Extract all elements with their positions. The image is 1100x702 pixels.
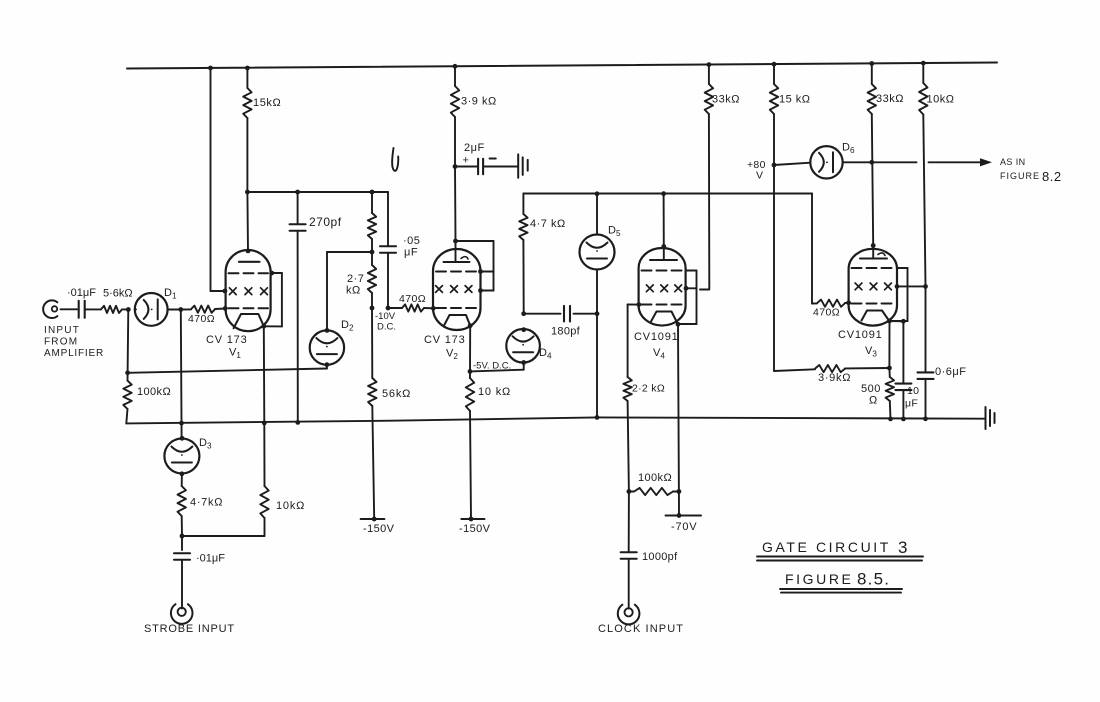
tube V2 CV173 envelope <box>433 249 481 330</box>
resistor 470 V3 grid <box>812 194 849 319</box>
capacitor 10uF <box>895 321 919 419</box>
ground at bus right <box>986 407 995 429</box>
wire V2 anode <box>454 167 457 242</box>
node 500 top junction <box>887 366 892 371</box>
node V3 screen pin <box>895 284 900 289</box>
wire V4 anode into plate <box>663 247 665 260</box>
node V3 grid pin <box>846 300 851 305</box>
svg-text:CV 173: CV 173 <box>206 334 248 346</box>
wire top HT supply rail <box>127 63 997 69</box>
node -10V DC junction <box>370 306 375 311</box>
capacitor 270pf <box>290 192 342 423</box>
wire V3 cathode drop <box>888 321 890 368</box>
node D4 top pin <box>521 327 526 332</box>
svg-text:V: V <box>756 170 763 182</box>
svg-text:100kΩ: 100kΩ <box>638 472 672 484</box>
resistor 10k strobe side <box>182 326 305 536</box>
label FIGURE 8.5 title <box>780 570 902 593</box>
svg-text:33kΩ: 33kΩ <box>876 93 904 105</box>
svg-text:CV 173: CV 173 <box>424 334 466 346</box>
svg-text:5·6kΩ: 5·6kΩ <box>103 288 133 300</box>
tube V3 cathode <box>862 311 890 322</box>
node V4 anode junction <box>661 191 666 196</box>
svg-text:kΩ: kΩ <box>346 285 361 297</box>
tube V4 cathode <box>651 312 678 325</box>
svg-text:Ω: Ω <box>869 395 877 407</box>
label CV1091 V4 <box>634 331 679 361</box>
node +80V junction <box>772 163 777 168</box>
wire V3 cathode bracket ext <box>890 320 904 322</box>
svg-text:10 kΩ: 10 kΩ <box>478 386 511 398</box>
svg-text:4·7kΩ: 4·7kΩ <box>190 497 223 509</box>
tube V2 grid dashed upper <box>436 271 477 273</box>
node junction 15k/branch <box>245 190 250 195</box>
svg-text:10kΩ: 10kΩ <box>276 500 305 512</box>
svg-text:56kΩ: 56kΩ <box>382 388 411 400</box>
resistor 3.9k (V2 anode load) <box>451 66 497 166</box>
tube V3 grid dashed lower <box>852 303 895 305</box>
wire D2 tap <box>327 251 372 253</box>
node -5V DC junction <box>468 369 473 374</box>
node V1 bracket grid pin <box>269 271 274 276</box>
resistor 33k (V4) <box>700 65 740 290</box>
wire 15k to V1 anode <box>246 192 249 251</box>
svg-text:3·9kΩ: 3·9kΩ <box>818 372 851 384</box>
node rail junction 10k right <box>921 61 926 66</box>
tube V4 grid dashed lower <box>642 304 683 306</box>
node 2.7k mid junction D2 tap <box>370 250 375 255</box>
wire V3 bracket <box>890 268 908 321</box>
tube V3 grid dashed upper <box>852 267 895 269</box>
capacitor .01uF input <box>67 287 96 318</box>
svg-text:CV1091: CV1091 <box>634 331 679 343</box>
diode D2 <box>310 319 354 365</box>
wire D1 to grid node <box>168 309 181 311</box>
wire V4 screen stub <box>686 287 697 289</box>
label STROBE INPUT <box>144 623 235 635</box>
node D3 bus junction <box>179 421 184 426</box>
resistor 2.7k upper section <box>368 192 376 252</box>
node V2 anode junction <box>453 239 458 244</box>
node strobe junction <box>180 534 185 539</box>
connector clock input <box>618 605 640 625</box>
node rail junction 33k <box>707 62 712 67</box>
svg-text:D.C.: D.C. <box>377 322 396 333</box>
diode D3 <box>164 437 212 474</box>
node 10uF top junction <box>901 319 906 324</box>
svg-text:FROM: FROM <box>44 337 78 348</box>
svg-text:μF: μF <box>905 398 918 410</box>
diode D6 <box>810 142 855 179</box>
wire V3 anode into plate <box>872 246 874 258</box>
label -10V D.C. <box>375 311 396 333</box>
label CV 173 V2 <box>424 334 466 361</box>
terminal -150V left <box>361 517 395 535</box>
label CLOCK INPUT <box>598 623 684 635</box>
svg-text:8.2: 8.2 <box>1042 169 1062 184</box>
wire D6 output <box>843 161 917 163</box>
wire V4 grid stub <box>628 302 642 307</box>
resistor 100k input <box>123 373 171 424</box>
diode D1 <box>135 287 177 326</box>
resistor 2.2k V4 grid <box>623 305 665 492</box>
resistor 500 V3 cathode <box>861 368 894 419</box>
svg-text:AS IN: AS IN <box>1000 157 1026 167</box>
resistor 3.9k V3 cathode <box>815 365 889 384</box>
svg-text:3·9 kΩ: 3·9 kΩ <box>461 96 497 108</box>
node 0.6uF bus junction <box>923 416 928 421</box>
label -5V D.C. <box>473 361 511 372</box>
svg-text:CLOCK INPUT: CLOCK INPUT <box>598 623 684 635</box>
terminal -70V <box>666 492 702 534</box>
resistor 5.6k input <box>85 288 133 314</box>
svg-text:15kΩ: 15kΩ <box>253 97 281 109</box>
resistor 56k <box>368 308 411 519</box>
annotation pen hook mark <box>392 148 398 171</box>
tube V1 grid dashed upper <box>229 272 269 274</box>
svg-text:μF: μF <box>404 247 418 259</box>
node rail junction 15k right <box>772 62 777 67</box>
resistor 15k right <box>770 64 811 165</box>
node V2 cathode pin <box>468 323 473 328</box>
node D6-33k junction <box>869 160 874 165</box>
svg-text:AMPLIFIER: AMPLIFIER <box>44 348 104 359</box>
svg-text:-70V: -70V <box>671 521 697 533</box>
svg-text:270pf: 270pf <box>309 215 342 229</box>
resistor 33k right (V3 anode) <box>868 64 904 246</box>
wire -5V node to D4 <box>470 363 524 371</box>
wire D5 riser <box>596 194 598 235</box>
wire D2 riser <box>326 252 328 330</box>
wire V2 anode into plate <box>455 241 457 261</box>
node V2 grid pin upper <box>478 269 483 274</box>
svg-text:FIGURE: FIGURE <box>1000 171 1040 181</box>
resistor 470 V2 grid <box>388 293 436 312</box>
label CV1091 V3 <box>838 329 883 359</box>
svg-text:FIGURE: FIGURE <box>785 571 854 587</box>
svg-text:-10V: -10V <box>375 311 396 322</box>
wire V4 cathode drop <box>677 324 680 491</box>
node 0.6uF top junction <box>923 284 928 289</box>
label CV 173 V1 <box>206 334 248 360</box>
wire gate output line y=193.5 <box>523 193 812 195</box>
node 100k right junction <box>677 489 682 494</box>
resistor 2.7k lower section <box>346 252 376 308</box>
node 10uF bus junction <box>901 417 906 422</box>
node V2 grid pin lower <box>478 288 483 293</box>
wire V4 bracket <box>679 271 697 325</box>
svg-text:1000pf: 1000pf <box>642 551 678 563</box>
tube V4 anode plate <box>650 259 677 261</box>
tube V1 grid dashed lower <box>229 307 269 309</box>
node D5 top junction <box>595 191 600 196</box>
node V1 anode pin <box>246 249 251 254</box>
node V3 cathode pin <box>887 319 892 324</box>
label GATE CIRCUIT 3 title <box>757 538 923 561</box>
resistor 10k V2 cathode <box>466 371 511 519</box>
svg-text:-150V: -150V <box>459 523 491 535</box>
svg-text:10kΩ: 10kΩ <box>927 94 955 106</box>
svg-text:2·7: 2·7 <box>347 273 364 285</box>
node 270pf bus junction <box>295 420 300 425</box>
node V1 cathode bus junction <box>262 421 267 426</box>
svg-text:470Ω: 470Ω <box>399 293 426 305</box>
wire +80 drop to 3.9k <box>774 165 815 371</box>
resistor 4.7k strobe <box>178 474 224 536</box>
tube V2 grid dashed lower <box>436 307 477 309</box>
node D2 bottom pin <box>325 362 330 367</box>
node V4 screen pin <box>684 286 689 291</box>
svg-text:·05: ·05 <box>403 235 420 247</box>
node V3 anode pin <box>871 243 876 248</box>
svg-text:4·7 kΩ: 4·7 kΩ <box>530 218 566 230</box>
node clock junction <box>627 489 632 494</box>
node V4 anode pin <box>661 244 666 249</box>
wire rail to V1 screen grid <box>211 68 228 293</box>
svg-text:100kΩ: 100kΩ <box>137 386 171 398</box>
svg-text:470Ω: 470Ω <box>813 307 840 319</box>
svg-text:·01μF: ·01μF <box>196 553 225 565</box>
node .05uF bottom junction <box>386 306 391 311</box>
tube V1 cathode <box>234 314 264 328</box>
wire D5 to bus <box>596 270 598 418</box>
resistor 15k (V1 anode load) <box>243 68 281 192</box>
node rail junction at 15k V1 <box>208 66 213 71</box>
svg-text:+: + <box>463 155 469 167</box>
node D2 top pin <box>325 328 330 333</box>
ground at 2uF <box>518 154 528 177</box>
svg-text:CV1091: CV1091 <box>838 329 883 341</box>
svg-text:STROBE INPUT: STROBE INPUT <box>144 623 235 635</box>
node D3 bottom pin <box>180 471 185 476</box>
node junction 2.7k top <box>370 190 375 195</box>
node 180pf left junction <box>521 311 526 316</box>
connector input from amplifier <box>43 300 57 318</box>
svg-text:2·2 kΩ: 2·2 kΩ <box>632 383 665 395</box>
svg-text:10: 10 <box>907 385 919 397</box>
svg-text:470Ω: 470Ω <box>188 313 215 325</box>
node junction 270pf <box>295 190 300 195</box>
tube V4 grid dashed upper <box>642 270 683 272</box>
node 500 bus junction <box>888 417 893 422</box>
wire bottom bus <box>126 417 985 423</box>
node D3 top pin <box>180 436 185 441</box>
wire +80 to D6 <box>774 163 810 165</box>
node rail junction 33k right <box>869 61 874 66</box>
wire V2 anode-grid strap <box>456 241 494 291</box>
svg-text:180pf: 180pf <box>551 326 581 338</box>
svg-text:500: 500 <box>861 383 881 395</box>
label INPUT FROM AMPLIFIER <box>44 325 104 359</box>
svg-text:·01μF: ·01μF <box>67 287 96 299</box>
wire input node down <box>127 310 130 373</box>
wire V2 cathode drop <box>469 326 471 372</box>
tube V2 anode plate <box>444 257 470 262</box>
connector strobe input <box>171 604 193 624</box>
wire arrow to figure 8.2 <box>929 158 993 166</box>
node junction D2 return <box>125 370 130 375</box>
terminal -150V right <box>459 517 491 535</box>
tube V1 screen x x x <box>229 288 267 295</box>
svg-text:8.5.: 8.5. <box>857 570 890 589</box>
wire input to cap <box>61 308 79 310</box>
svg-text:0·6μF: 0·6μF <box>935 366 966 378</box>
node D4 bottom pin <box>521 360 526 365</box>
capacitor 1000pf clock <box>621 492 678 609</box>
resistor 100k clock <box>629 472 679 495</box>
tube V3 anode plate <box>860 253 887 259</box>
diode D5 <box>580 225 621 270</box>
node 2uF junction <box>453 164 458 169</box>
node input junction <box>126 307 131 312</box>
node V4 cathode pin <box>676 322 681 327</box>
svg-text:33kΩ: 33kΩ <box>712 94 740 106</box>
wire V1 anode branch at y=192 <box>247 191 388 193</box>
tube V3 CV1091 envelope <box>849 249 897 326</box>
resistor 10k right (to 0.6uF) <box>919 63 954 286</box>
tube V2 cathode <box>444 315 470 326</box>
tube V4 screen x x x <box>646 285 681 292</box>
svg-text:INPUT: INPUT <box>44 325 80 336</box>
capacitor 180pf <box>524 306 597 338</box>
node 180pf right junction <box>595 311 600 316</box>
node rail junction 3.9k <box>453 64 458 69</box>
resistor 4.7k gate <box>519 194 565 314</box>
wire D2 return to input node <box>128 365 327 373</box>
label +80 V <box>747 159 766 182</box>
tube V3 screen x x x <box>855 283 891 290</box>
capacitor .01uF strobe <box>174 536 225 609</box>
capacitor 0.6uF <box>918 286 967 418</box>
resistor 470 V1 grid <box>181 306 228 325</box>
capacitor .05uF <box>380 192 420 308</box>
svg-text:2μF: 2μF <box>464 142 485 154</box>
tube V2 screen x x x <box>436 286 472 293</box>
diode D4 <box>506 329 552 363</box>
svg-text:15 kΩ: 15 kΩ <box>779 94 811 106</box>
svg-text:GATE CIRCUIT: GATE CIRCUIT <box>762 539 891 555</box>
node V1 cathode junction <box>261 324 266 329</box>
tube V4 CV1091 envelope <box>639 248 686 326</box>
wire D1 node to D3 <box>180 310 183 439</box>
capacitor 2uF <box>455 142 518 174</box>
wire V4 anode <box>663 194 665 247</box>
node D1 output junction <box>178 307 183 312</box>
svg-text:3: 3 <box>898 538 907 557</box>
tube V1 CV173 envelope <box>226 250 271 331</box>
node D5 bus junction <box>595 415 600 420</box>
wire V1 bracket grid-cathode <box>264 273 282 326</box>
label AS IN FIGURE 8.2 <box>1000 157 1062 184</box>
wire V3 screen stub to 10k line <box>897 285 926 287</box>
node rail junction 15k <box>245 66 250 71</box>
tube V1 anode plate <box>239 261 260 263</box>
svg-text:-150V: -150V <box>363 523 395 535</box>
